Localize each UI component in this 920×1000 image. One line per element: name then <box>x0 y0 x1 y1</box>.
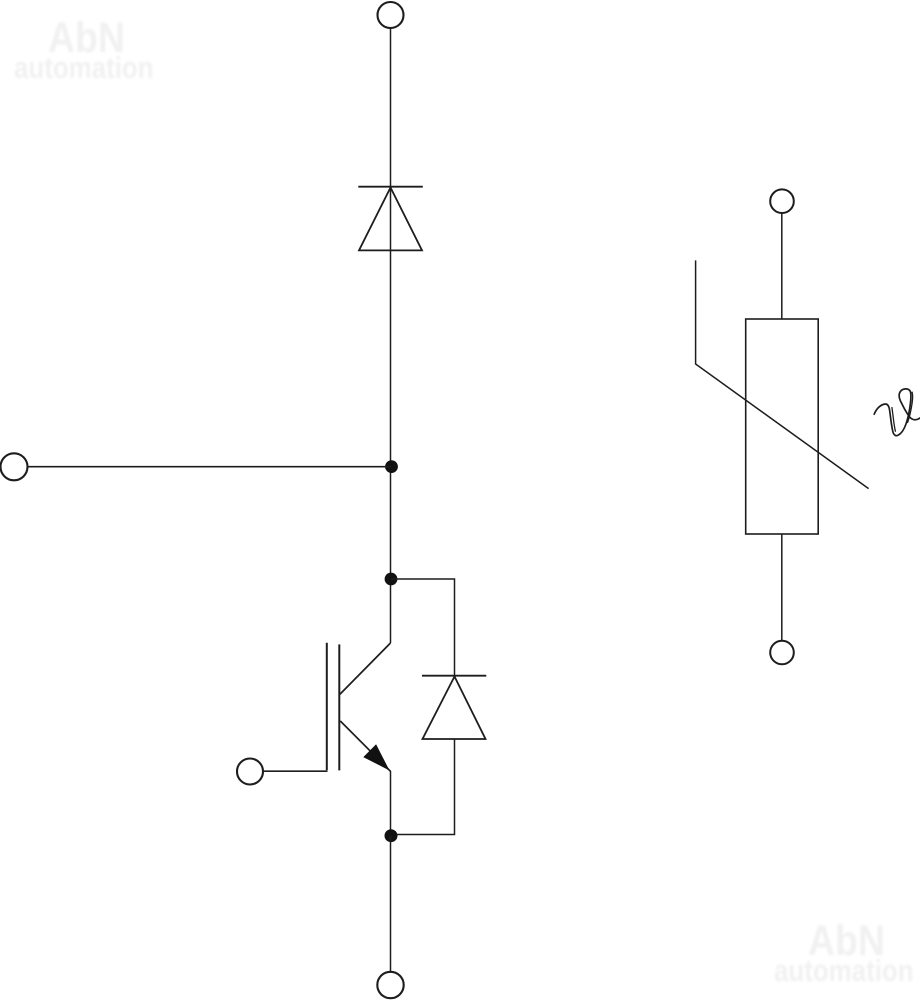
wire: node 3 to bottom terminal <box>390 836 392 972</box>
wire: thermistor bottom lead <box>781 534 783 641</box>
body bar (right vertical) <box>338 644 340 770</box>
wire: diode D2 bottom lead to node 3 <box>391 739 455 835</box>
terminal RT-bottom (thermistor bottom terminal) <box>770 641 794 665</box>
terminal T1 (top collector terminal) <box>378 2 404 28</box>
emitter arrowhead of Q1 <box>363 744 389 770</box>
wire: emitter vertical to node 3 <box>390 771 392 836</box>
node 1 (junction with left auxiliary terminal) <box>385 460 398 473</box>
collector diagonal <box>340 643 391 694</box>
emitter diagonal <box>340 721 390 771</box>
terminal G (gate terminal) <box>237 759 263 785</box>
gate bar (left vertical) <box>326 643 328 771</box>
watermark top-left "AbN" <box>48 17 125 60</box>
wire: T1 down through D1 to collector bend <box>390 28 392 643</box>
label theta (temperature symbol) <box>874 389 920 436</box>
diode D1 (series diode, cathode up) <box>358 187 423 251</box>
wire: gate lead <box>264 770 328 772</box>
watermark bottom-right "AbN" <box>808 920 885 963</box>
node 3 (emitter / freewheel-diode junction) <box>385 829 398 842</box>
terminal T3 (bottom emitter terminal) <box>377 972 403 998</box>
transistor Q1 (IGBT) <box>327 643 391 772</box>
wire: thermistor top lead <box>781 213 783 319</box>
wire: left terminal to node 1 <box>28 466 392 468</box>
thermistor RT1 body <box>746 319 819 534</box>
node 2 (collector / freewheel-diode junction) <box>385 573 398 586</box>
diode D2 (freewheel diode, cathode up) <box>422 676 486 739</box>
terminal RT-top (thermistor top terminal) <box>770 189 794 213</box>
thermistor RT1 diagonal hook stroke <box>696 260 869 488</box>
wire: node 2 to diode D2 top lead <box>391 579 455 676</box>
terminal T2 (left auxiliary terminal) <box>1 453 28 480</box>
watermark bottom-right "automation" <box>774 956 914 987</box>
watermark top-left "automation" <box>14 53 154 84</box>
